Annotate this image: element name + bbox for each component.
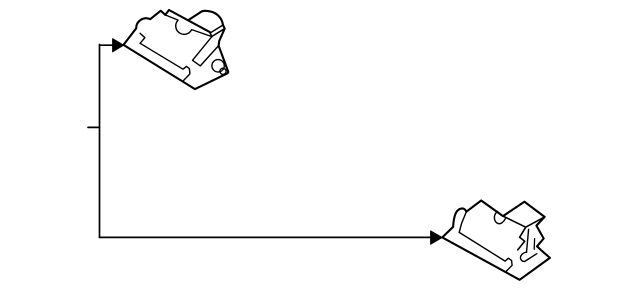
top lamp: bulb socket dome	[189, 11, 223, 25]
tick on leader line	[88, 126, 100, 128]
bottom lamp: bulb-hole cutout arc	[494, 211, 505, 223]
top lamp: inner face step	[140, 33, 145, 43]
top leader stub	[100, 44, 114, 46]
top lamp: outer left edge, bump, apex notch, cover strip top edge	[124, 10, 211, 45]
bottom lamp: zigzag step below tab	[518, 227, 526, 250]
leader vertical line	[99, 45, 101, 238]
bottom lamp: squiggle notch	[520, 252, 536, 262]
bottom leader line	[100, 236, 432, 238]
bottom lamp: tab bottom edge	[503, 216, 545, 227]
top lamp: socket base step	[210, 29, 225, 37]
top lamp: cover side band	[193, 37, 219, 66]
top lamp: right side notch, boss lobe edge, thick bottom edges	[124, 25, 229, 89]
bottom lamp: staircase inner line	[533, 239, 535, 250]
top lamp: boss circle	[212, 60, 224, 72]
bottom lamp: inner crease	[527, 229, 529, 252]
top lamp: screw circle	[220, 68, 226, 74]
top lamp: socket base crease	[210, 25, 223, 33]
bottom arrowhead	[431, 231, 443, 244]
top lamp: inner face line with hook	[140, 43, 190, 80]
bottom lamp: inner face line from bump end with hook	[459, 212, 512, 272]
bottom lamp: outer silhouette with bump, tab, staircase, thick bottom edges	[442, 201, 550, 280]
top arrowhead	[113, 39, 124, 52]
top lamp: cover strip lower edge with bulb-hole cutout	[165, 15, 212, 37]
